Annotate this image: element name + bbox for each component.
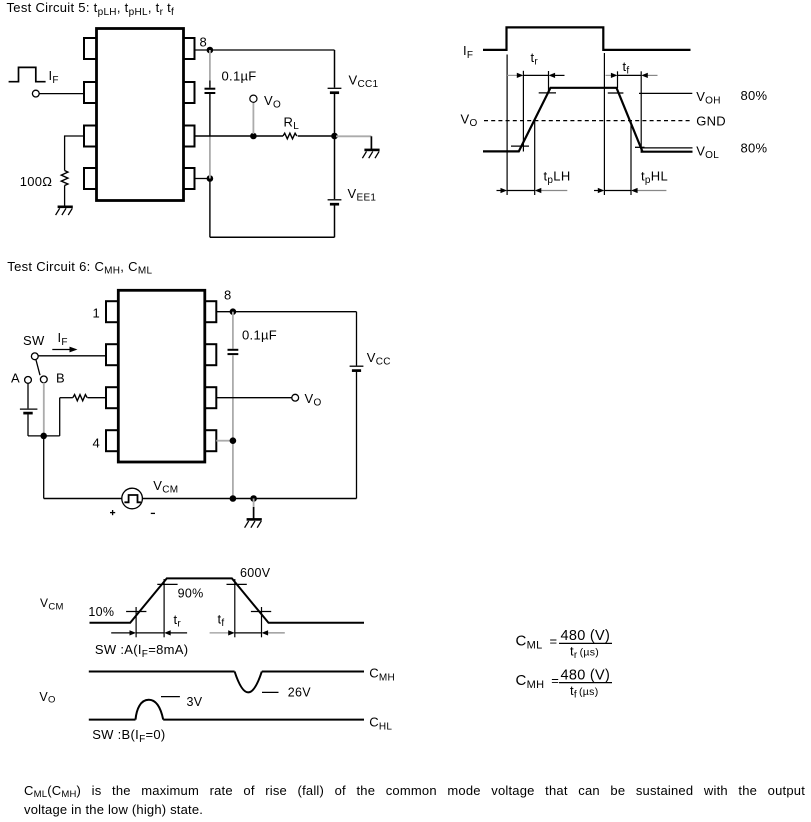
- svg-text:0.1µF: 0.1µF: [222, 68, 257, 83]
- svg-text:IF: IF: [463, 43, 473, 61]
- svg-text:26V: 26V: [288, 686, 312, 700]
- svg-text:tpLH: tpLH: [544, 169, 571, 187]
- svg-text:tf(µs): tf(µs): [570, 683, 599, 701]
- svg-text:tr(µs): tr(µs): [570, 644, 599, 662]
- svg-text:10%: 10%: [88, 605, 114, 619]
- svg-text:B: B: [56, 370, 65, 385]
- svg-text:4: 4: [93, 436, 101, 451]
- svg-text:tf: tf: [218, 612, 225, 630]
- svg-text:SW :B(IF=0): SW :B(IF=0): [92, 727, 165, 745]
- svg-text:80%: 80%: [741, 141, 768, 156]
- svg-text:80%: 80%: [741, 88, 768, 103]
- svg-text:3V: 3V: [187, 695, 203, 709]
- svg-text:600V: 600V: [240, 566, 271, 580]
- svg-text:Test Circuit 5: tpLH, tpHL, tr: Test Circuit 5: tpLH, tpHL, tr tf: [7, 0, 175, 18]
- svg-text:VO: VO: [305, 391, 322, 409]
- svg-text:VEE1: VEE1: [348, 186, 377, 204]
- svg-text:8: 8: [224, 288, 232, 303]
- svg-text:GND: GND: [696, 113, 726, 128]
- svg-text:8: 8: [200, 35, 208, 50]
- svg-text:480 (V): 480 (V): [561, 668, 611, 684]
- svg-text:tr: tr: [174, 612, 182, 630]
- svg-text:VCM: VCM: [153, 478, 178, 496]
- svg-text:SW: SW: [23, 333, 45, 348]
- svg-text:480 (V): 480 (V): [561, 628, 611, 644]
- svg-text:CML =: CML =: [516, 632, 558, 651]
- svg-text:1: 1: [93, 306, 101, 321]
- svg-text:VCC: VCC: [367, 350, 391, 368]
- svg-text:RL: RL: [284, 115, 300, 133]
- svg-text:tf: tf: [623, 59, 630, 77]
- svg-text:IF: IF: [49, 68, 59, 86]
- svg-text:90%: 90%: [178, 586, 204, 600]
- svg-text:VO: VO: [39, 690, 55, 706]
- svg-text:VOL: VOL: [696, 143, 719, 161]
- svg-text:SW :A(IF=8mA): SW :A(IF=8mA): [95, 642, 188, 660]
- svg-text:100Ω: 100Ω: [20, 174, 53, 189]
- svg-text:VO: VO: [461, 112, 478, 130]
- svg-text:VOH: VOH: [696, 89, 721, 107]
- svg-text:IF: IF: [58, 330, 68, 348]
- svg-text:VCM: VCM: [40, 596, 64, 613]
- svg-text:CHL: CHL: [369, 715, 392, 733]
- svg-text:VO: VO: [264, 93, 281, 111]
- svg-text:0.1µF: 0.1µF: [242, 328, 277, 343]
- svg-text:Test Circuit 6: CMH, CML: Test Circuit 6: CMH, CML: [7, 259, 152, 277]
- svg-text:VCC1: VCC1: [349, 73, 379, 91]
- svg-text:tpHL: tpHL: [641, 169, 668, 187]
- svg-text:A: A: [11, 370, 20, 385]
- svg-text:CMH: CMH: [369, 666, 395, 684]
- svg-text:tr: tr: [531, 50, 539, 68]
- svg-text:CMH =: CMH =: [516, 672, 560, 691]
